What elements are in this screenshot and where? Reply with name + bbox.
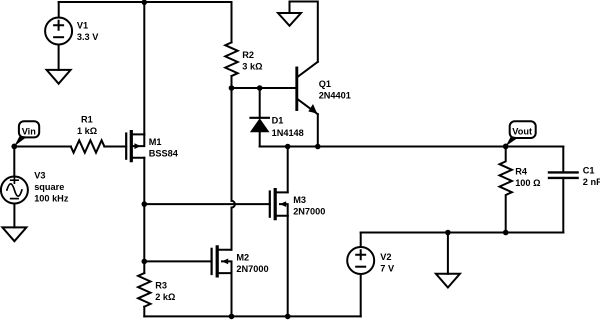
- wire V1 top stem: [58, 2, 60, 18]
- svg-text:M1: M1: [149, 137, 162, 147]
- resistor R3: [138, 273, 150, 307]
- ground (Q1 collector): [278, 2, 301, 26]
- svg-text:BSS84: BSS84: [149, 148, 179, 158]
- svg-text:1 kΩ: 1 kΩ: [77, 126, 97, 136]
- wire ground stem right: [447, 233, 449, 274]
- svg-text:2 kΩ: 2 kΩ: [155, 292, 175, 302]
- node junction M3 gate tap: [142, 201, 148, 207]
- wire M2 gate to node below A: [144, 260, 211, 262]
- svg-text:Vin: Vin: [22, 127, 37, 137]
- ground (right): [436, 274, 460, 288]
- wire M3 drain up: [287, 147, 289, 193]
- label C1 value: [583, 166, 600, 188]
- label M3 value: [293, 195, 325, 217]
- svg-text:Q1: Q1: [319, 79, 331, 89]
- svg-text:R3: R3: [155, 281, 167, 291]
- label M2 value: [236, 252, 268, 274]
- node junction M2 gate tap: [142, 259, 148, 265]
- svg-text:100 Ω: 100 Ω: [515, 178, 540, 188]
- svg-text:Vout: Vout: [512, 127, 532, 137]
- node junction R2 bottom: [229, 85, 235, 91]
- ground (below V3): [2, 227, 26, 241]
- label R3 value: [155, 281, 175, 303]
- svg-text:R1: R1: [81, 115, 93, 125]
- resistor R1: [71, 140, 105, 152]
- wire M2 source down: [231, 273, 233, 316]
- wire M3 source down: [287, 216, 289, 317]
- svg-text:7 V: 7 V: [380, 263, 395, 273]
- label R1 value: [77, 115, 97, 137]
- label D1 value: [272, 116, 304, 138]
- wire D1 bottom stem: [259, 132, 261, 146]
- svg-text:2N4401: 2N4401: [319, 90, 351, 100]
- wire M2 drain column with hop over M3 gate wire: [231, 88, 233, 250]
- wire row B to Q1 base: [232, 87, 297, 89]
- ground (below V1): [47, 70, 71, 84]
- wire V2 top stem: [360, 233, 362, 248]
- resistor R2: [225, 42, 237, 76]
- node junction R4 bottom: [503, 230, 509, 236]
- label V2 value: [380, 252, 395, 274]
- wire hop arc: [232, 201, 235, 208]
- svg-text:1N4148: 1N4148: [272, 128, 304, 138]
- voltage source V3 square: [1, 177, 28, 204]
- diode D1: [250, 118, 270, 132]
- wire V3 top stem: [13, 147, 15, 177]
- voltage source V1: [45, 18, 72, 45]
- svg-text:V3: V3: [34, 171, 45, 181]
- svg-text:3 kΩ: 3 kΩ: [242, 62, 262, 72]
- label R4 value: [515, 166, 540, 188]
- wire R2 top stem: [231, 2, 233, 42]
- wire V3 bottom stem: [13, 204, 15, 228]
- node Vin flag: [11, 121, 39, 149]
- wire top rail from V1 to R2: [59, 1, 232, 3]
- wire V1 bottom stem: [58, 45, 60, 70]
- wire Q1 emitter down: [317, 114, 319, 146]
- label Q1 value: [319, 79, 351, 101]
- svg-text:R4: R4: [515, 166, 528, 176]
- node junction ground tap: [445, 230, 451, 236]
- wire M3 gate to node A: [144, 203, 269, 205]
- svg-text:D1: D1: [272, 116, 284, 126]
- svg-text:R2: R2: [242, 50, 254, 60]
- transistor M1 BSS84 pmos: [126, 132, 144, 161]
- wire M1 drain down to R3: [143, 158, 145, 273]
- svg-text:V1: V1: [77, 21, 88, 31]
- wire V2 bottom stem: [360, 274, 362, 316]
- wire mid right rail: [361, 232, 564, 234]
- svg-text:3.3 V: 3.3 V: [77, 32, 99, 42]
- transistor Q1 2N4401 npn: [297, 62, 318, 114]
- label V3 value: [34, 171, 69, 204]
- node junction M2 source: [229, 314, 235, 320]
- voltage source V2: [347, 247, 374, 274]
- wire Q1 collector up: [290, 2, 318, 62]
- node junction M3 source: [285, 314, 291, 320]
- wire R1 to M1 gate: [104, 146, 126, 148]
- transistor M3 2N7000 nmos: [270, 190, 288, 219]
- wire R2 bottom stem: [231, 76, 233, 88]
- wire R3 bottom to rail: [143, 307, 145, 317]
- node Vout flag: [503, 121, 536, 149]
- node junction M3 drain: [285, 144, 291, 150]
- node junction top rail: [142, 0, 147, 5]
- svg-text:M2: M2: [236, 252, 249, 262]
- wire Vin node to R1: [14, 146, 71, 148]
- svg-text:2N7000: 2N7000: [236, 264, 268, 274]
- svg-text:100 kHz: 100 kHz: [34, 194, 69, 204]
- wire M1 source up to top rail: [143, 2, 145, 134]
- wire bottom rail: [144, 315, 360, 317]
- svg-text:C1: C1: [583, 166, 595, 176]
- wire D1 top stem: [259, 88, 261, 118]
- node junction D1 top: [257, 85, 263, 91]
- svg-text:M3: M3: [293, 195, 306, 205]
- label M1 value: [149, 137, 179, 159]
- label R2 value: [242, 50, 262, 72]
- svg-text:V2: V2: [380, 252, 391, 262]
- label V1 value: [77, 21, 99, 42]
- capacitor C1: [549, 147, 578, 233]
- node junction Q1 emitter: [315, 144, 321, 150]
- svg-text:2N7000: 2N7000: [293, 207, 325, 217]
- resistor R4: [500, 147, 512, 233]
- transistor M2 2N7000 nmos: [212, 247, 232, 276]
- svg-text:square: square: [34, 182, 64, 192]
- svg-text:2 nF: 2 nF: [583, 177, 600, 187]
- wire Vout rail: [260, 146, 564, 148]
